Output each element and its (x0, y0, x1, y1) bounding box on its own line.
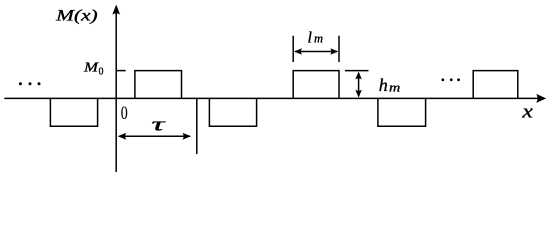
svg-text:M(x): M(x) (55, 8, 98, 25)
svg-text:l: l (308, 29, 313, 46)
svg-text:m: m (314, 32, 323, 46)
svg-text:x: x (521, 102, 533, 123)
svg-text:0: 0 (99, 67, 104, 78)
svg-text:m: m (389, 80, 400, 94)
svg-text:0: 0 (121, 103, 128, 124)
svg-text:M: M (83, 61, 100, 76)
svg-text:h: h (379, 75, 388, 95)
